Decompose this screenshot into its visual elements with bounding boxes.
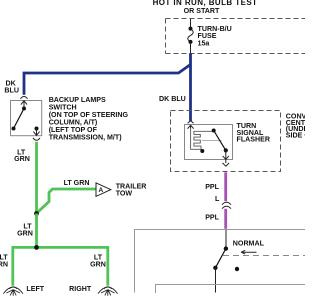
svg-text:LT GRN: LT GRN [64,179,90,187]
svg-text:NORMAL: NORMAL [233,240,265,248]
fuse TURN-B/U 15a [189,27,193,31]
connector chevron below flasher [223,163,230,166]
svg-text:GRN: GRN [0,261,8,269]
svg-text:PPL: PPL [205,183,219,191]
svg-text:FLASHER: FLASHER [237,135,271,143]
wire PPL continues [224,209,227,229]
turn signal flasher dashed box [171,111,281,172]
junction node [34,211,39,216]
svg-text:GRN: GRN [17,229,33,237]
svg-text:TRANSMISSION, M/T): TRANSMISSION, M/T) [49,133,123,141]
terminal arrow into flasher [188,125,194,129]
junction node at lamp split [34,245,39,250]
connector chevron at blue wire end [188,121,194,124]
svg-text:PPL: PPL [205,213,219,221]
svg-text:L: L [215,195,220,203]
svg-text:OR START: OR START [184,7,220,15]
terminal arrow out [33,129,39,136]
svg-text:HOT IN RUN, BULB TEST: HOT IN RUN, BULB TEST [153,0,258,7]
bottom inner box [156,285,307,294]
fuse block dashed box [166,19,307,54]
wire (feed into fuse) [190,19,192,29]
switch contacts [224,246,228,250]
flasher inner box [185,125,233,160]
wire branch to trailer tow [37,189,97,213]
switch feed line [225,230,227,249]
svg-text:GRN: GRN [14,155,30,163]
terminal arrow in [21,100,27,108]
flasher contacts [212,129,216,133]
wire split to left and right lamps [13,247,108,285]
wire LT GRN continues [35,214,38,248]
terminal arrow out of flasher [223,150,229,159]
connector arcs [222,202,231,204]
svg-text:BLU: BLU [4,87,19,95]
lamp RIGHT [98,287,118,296]
svg-text:GRN: GRN [90,261,106,269]
wire PPL [224,172,227,201]
svg-text:SIDE OF I/P): SIDE OF I/P) [286,132,305,140]
direction arrow and dashed travel line [241,250,257,254]
svg-text:TOW: TOW [116,190,133,198]
switch contacts [22,107,26,111]
backup lamps switch box [11,101,42,136]
svg-text:A: A [98,187,103,194]
connector arc at backup switch [21,97,28,99]
wire DK BLU branch to backup switch [24,65,191,95]
svg-text:15a: 15a [198,39,210,47]
wire LT GRN from switch [35,142,38,214]
bottom outer box (switch assembly) [135,230,307,293]
svg-text:RIGHT: RIGHT [69,285,92,293]
svg-text:DK BLU: DK BLU [159,95,186,103]
heater element meander [191,129,214,150]
mechanical link line [202,140,222,142]
lamp LEFT [3,287,23,296]
connector arc below switch [33,138,40,140]
svg-text:LEFT: LEFT [26,285,44,293]
off-page connector A triangle [96,183,111,197]
wire DK BLU main (fuse to flasher) [189,53,192,121]
